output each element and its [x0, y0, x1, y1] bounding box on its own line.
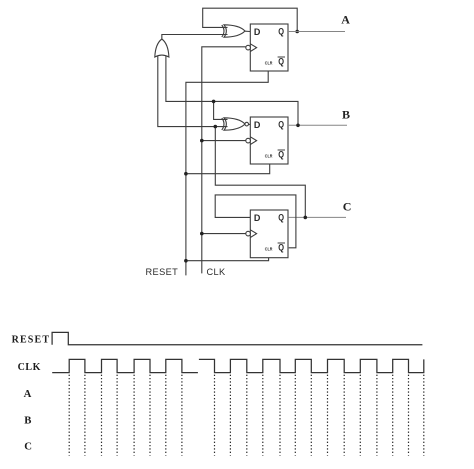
svg-text:C: C — [24, 440, 32, 452]
XOR gate G1 (feeds D of U1) — [222, 25, 251, 37]
svg-text:B: B — [342, 107, 350, 121]
svg-text:B: B — [24, 415, 31, 427]
node: junction Q_C feedback branch — [214, 125, 218, 129]
wire: Q_A output to label A — [288, 31, 345, 33]
wire: Q_C output to label C — [289, 216, 346, 218]
svg-text:RESET: RESET — [146, 267, 179, 277]
wire: RESET net vertical with branches to all CLR pins — [186, 71, 268, 275]
svg-text:C: C — [343, 200, 352, 214]
wire: CLK net vertical with branches to all clock pins — [202, 47, 246, 274]
node: junction Q_B feedback branch — [212, 100, 216, 104]
wire: Q_C feedback from node C up, left to XNOR G2 lower input and OR G3 left input — [215, 127, 305, 218]
clock-edge guide dotted lines — [69, 375, 424, 456]
svg-text:D: D — [254, 213, 261, 223]
svg-text:A: A — [341, 13, 350, 27]
wire: Q_A feedback from node A up over to XOR G1 upper input — [203, 8, 298, 31]
node: junction on Q_B output — [296, 124, 300, 128]
wire: Q-bar of U3 feedback to D of U3 — [215, 195, 296, 248]
node: junction on Q_C output — [304, 216, 308, 220]
wire: OR G3 output up and right to XOR G1 lower input — [162, 35, 228, 40]
node: CLK junction at U2 — [200, 139, 204, 143]
svg-text:RESET: RESET — [12, 334, 51, 345]
svg-text:D: D — [254, 120, 261, 130]
XNOR gate G2 (feeds D of U2) — [222, 118, 251, 130]
node: RESET junction at U2 CLR — [184, 172, 188, 176]
D flip-flop U2 (output B) — [246, 117, 288, 164]
OR gate G3 (vertical, output up to G1) — [155, 39, 169, 57]
svg-text:CLR: CLR — [265, 246, 273, 251]
svg-text:CLK: CLK — [18, 362, 41, 373]
node: CLK junction at U3 — [200, 232, 204, 236]
timing diagram — [12, 332, 424, 455]
svg-text:CLR: CLR — [265, 60, 273, 65]
CLK waveform (with splice gap) — [52, 359, 198, 372]
svg-text:Q: Q — [278, 120, 284, 130]
svg-text:Q: Q — [278, 150, 284, 160]
svg-text:Q: Q — [278, 57, 284, 67]
node: RESET junction at U3 CLR — [184, 259, 188, 263]
svg-text:CLK: CLK — [207, 267, 227, 277]
wire: Q_B feedback from node B up, left, down to XNOR G2 upper input and OR G3 right input — [166, 56, 298, 126]
D flip-flop U3 (output C) — [246, 210, 288, 258]
RESET waveform — [52, 332, 422, 344]
svg-text:Q: Q — [278, 213, 284, 223]
svg-text:Q: Q — [278, 243, 284, 253]
node: junction on Q_A output — [295, 30, 299, 34]
wire: Q_B output to label B — [288, 124, 347, 126]
svg-text:CLR: CLR — [265, 153, 273, 158]
svg-text:Q: Q — [278, 27, 284, 37]
svg-text:D: D — [254, 27, 261, 37]
svg-text:A: A — [24, 388, 32, 400]
D flip-flop U1 (output A) — [246, 24, 288, 71]
